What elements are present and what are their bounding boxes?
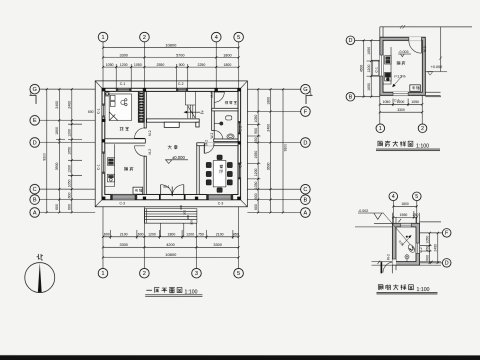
kitchen counter xyxy=(105,144,115,186)
svg-text:1: 1 xyxy=(101,35,104,41)
svg-text:D: D xyxy=(445,261,449,267)
svg-text:600: 600 xyxy=(104,232,110,236)
door bottom-left (opens out) xyxy=(381,259,396,273)
section mark 1 right xyxy=(306,91,313,105)
svg-text:1200: 1200 xyxy=(68,165,72,173)
stair closet notch xyxy=(164,122,179,127)
window C-1 left wall xyxy=(373,55,383,76)
餐厅 dining (vertical) xyxy=(220,165,223,168)
svg-text:M-2: M-2 xyxy=(148,149,152,155)
extra stems for sub ticks xyxy=(116,64,188,88)
level mark ±0.000 in hall xyxy=(166,155,189,164)
svg-text:1800: 1800 xyxy=(224,63,232,67)
svg-text:2400: 2400 xyxy=(434,244,438,252)
ticks col mid xyxy=(58,88,60,214)
svg-text:3900: 3900 xyxy=(55,162,59,170)
svg-text:3300: 3300 xyxy=(213,243,221,247)
svg-text:F: F xyxy=(304,109,308,115)
stairs xyxy=(185,91,195,118)
svg-text:1050: 1050 xyxy=(254,181,258,189)
svg-text:4500: 4500 xyxy=(360,65,364,73)
svg-text:10800: 10800 xyxy=(165,252,177,257)
svg-text:M-2: M-2 xyxy=(423,46,427,52)
porch steps xyxy=(145,209,197,224)
ticks col outer (9300) xyxy=(46,88,48,214)
svg-text:1200: 1200 xyxy=(367,65,371,73)
right vertical line with level xyxy=(440,27,442,72)
svg-text:C-2: C-2 xyxy=(419,247,423,252)
bottom line extensions xyxy=(371,222,441,265)
corner diagonals xyxy=(95,81,247,207)
svg-text:1200: 1200 xyxy=(120,63,128,67)
卧室 bedroom xyxy=(120,127,124,130)
window C-3 bottom wall left (kitchen) xyxy=(110,195,136,200)
bathroom door (left wall, opening y130.5-138.9) xyxy=(214,130,222,138)
grid row stems xyxy=(39,89,95,212)
chairs xyxy=(206,162,211,167)
door opening top right xyxy=(409,37,422,53)
svg-text:5: 5 xyxy=(415,194,418,200)
svg-text:5: 5 xyxy=(237,271,240,277)
svg-text:C: C xyxy=(33,187,37,193)
svg-text:C-2: C-2 xyxy=(178,82,184,86)
labels xyxy=(397,62,401,65)
svg-text:2: 2 xyxy=(143,271,146,277)
svg-text:M-2: M-2 xyxy=(205,140,209,146)
svg-text:2: 2 xyxy=(143,35,146,41)
svg-text:300: 300 xyxy=(182,210,186,215)
svg-text:1: 1 xyxy=(101,271,104,277)
window C-2 top wall xyxy=(176,89,187,92)
ticks outer col xyxy=(282,88,284,214)
bed (bedroom) xyxy=(109,94,131,121)
interior walls xyxy=(105,91,238,194)
svg-text:1200: 1200 xyxy=(186,232,194,236)
svg-text:600: 600 xyxy=(254,204,258,210)
svg-text:C-2: C-2 xyxy=(239,126,243,132)
svg-text:C-3: C-3 xyxy=(218,202,224,206)
dim lines xyxy=(103,48,239,67)
svg-text:2400: 2400 xyxy=(55,101,59,109)
room walls xyxy=(392,223,419,265)
svg-text:300: 300 xyxy=(186,215,190,220)
svg-text:1800: 1800 xyxy=(55,127,59,135)
M-2 tag xyxy=(423,46,427,52)
left extension of top wall xyxy=(355,223,392,227)
svg-text:M-2: M-2 xyxy=(210,92,214,98)
svg-text:C-3: C-3 xyxy=(119,202,125,206)
room walls xyxy=(380,37,426,95)
svg-text:-0.002: -0.002 xyxy=(358,209,368,213)
svg-text:1050: 1050 xyxy=(134,63,142,67)
svg-text:450: 450 xyxy=(425,246,429,252)
svg-text:3: 3 xyxy=(195,271,198,277)
window/door tags on plan xyxy=(96,82,242,205)
break marks xyxy=(377,219,432,264)
svg-text:M-1: M-1 xyxy=(163,185,169,189)
svg-text:2100: 2100 xyxy=(120,232,128,236)
svg-text:300: 300 xyxy=(189,220,193,225)
storage door xyxy=(214,92,224,102)
wall extension up + break line top xyxy=(380,27,383,37)
window C-1 right wall (dining) xyxy=(238,163,241,179)
structural columns (black) at grid intersections xyxy=(102,88,241,200)
svg-text:600: 600 xyxy=(55,204,59,210)
svg-text:10800: 10800 xyxy=(165,42,177,47)
svg-text:1050: 1050 xyxy=(383,100,391,104)
bottom wall extension right xyxy=(425,92,440,95)
wall between hall and dining (x196.8-199.2) xyxy=(197,144,199,195)
svg-text:900: 900 xyxy=(179,63,185,67)
svg-text:B: B xyxy=(349,95,353,101)
svg-text:C-1: C-1 xyxy=(97,108,101,114)
svg-text:450: 450 xyxy=(254,137,258,143)
wall outer face xyxy=(102,88,241,200)
svg-text:1050: 1050 xyxy=(68,179,72,187)
svg-text:E: E xyxy=(33,118,37,124)
svg-text:4200: 4200 xyxy=(166,243,174,247)
dining table xyxy=(213,161,226,187)
svg-text:1800: 1800 xyxy=(223,53,231,57)
ticks row1 xyxy=(102,47,240,49)
svg-text:+0.000: +0.000 xyxy=(431,65,443,69)
上 up at stairs xyxy=(200,110,204,113)
svg-text:2250: 2250 xyxy=(198,63,206,67)
grid circles top xyxy=(98,32,243,42)
ticks row2 xyxy=(102,56,240,58)
title xyxy=(378,141,383,146)
main plan title xyxy=(145,288,202,297)
flue shaft (hatched) right of bedroom xyxy=(138,91,144,122)
冰箱 fridge text xyxy=(135,189,138,192)
grid stems xyxy=(103,42,239,89)
section mark 1 top-left xyxy=(30,90,37,104)
svg-text:900: 900 xyxy=(254,128,258,134)
svg-text:750: 750 xyxy=(198,232,204,236)
svg-text:1200: 1200 xyxy=(148,232,156,236)
svg-text:A: A xyxy=(304,210,308,216)
svg-text:1200: 1200 xyxy=(397,100,405,104)
svg-text:1: 1 xyxy=(379,126,382,132)
svg-text:1800: 1800 xyxy=(401,202,409,206)
svg-text:1200: 1200 xyxy=(68,129,72,137)
window C-2 right wall xyxy=(416,243,423,253)
window C-2 right wall (bath) xyxy=(238,121,241,134)
svg-text:900: 900 xyxy=(425,255,429,261)
dim vertical lines xyxy=(47,89,72,212)
window C-1 left wall (kitchen) xyxy=(102,152,105,174)
wall inner face xyxy=(105,91,238,194)
svg-text:C-1: C-1 xyxy=(375,67,379,72)
svg-text:1800: 1800 xyxy=(266,97,270,105)
svg-text:2400: 2400 xyxy=(266,124,270,132)
kitchen door M-2 (leaf on divider bottom, arc down-left) xyxy=(135,146,145,156)
svg-text:5: 5 xyxy=(237,35,240,41)
svg-text:1:100: 1:100 xyxy=(416,287,429,293)
doors xyxy=(134,92,224,200)
window C-1 bottom wall xyxy=(393,92,408,95)
svg-text:C-1: C-1 xyxy=(239,162,243,168)
window top wall xyxy=(400,224,411,227)
hall top: low wall band from x146.6 to 198.9 xyxy=(147,119,200,122)
slope arrow xyxy=(393,77,402,87)
counter + appliances xyxy=(383,47,391,84)
svg-text:W-2: W-2 xyxy=(386,254,390,260)
svg-text:600: 600 xyxy=(68,204,72,210)
ticks mid col xyxy=(269,88,271,214)
window C-3 bottom wall right (dining) xyxy=(206,195,232,200)
shower head circle xyxy=(220,122,223,125)
svg-text:3300: 3300 xyxy=(120,53,128,57)
step depth labels 300 rotated xyxy=(179,205,194,225)
toilet xyxy=(227,134,234,139)
svg-text:1050: 1050 xyxy=(106,63,114,67)
window C-1 left wall (bedroom) xyxy=(102,104,105,117)
svg-text:1050: 1050 xyxy=(425,236,429,244)
svg-text:M-2: M-2 xyxy=(148,130,152,136)
svg-text:1800: 1800 xyxy=(167,232,175,236)
svg-text:1050: 1050 xyxy=(254,115,258,123)
svg-text:C-1: C-1 xyxy=(97,164,101,170)
svg-text:1650: 1650 xyxy=(68,147,72,155)
main entrance M-1 double door xyxy=(161,185,184,197)
svg-text:450: 450 xyxy=(233,232,239,236)
dining door M-2 (top wall, opening x204.3-213.9) xyxy=(205,143,214,146)
svg-text:3600: 3600 xyxy=(266,162,270,170)
大堂 hall xyxy=(168,145,172,149)
storage bottom wall xyxy=(212,108,238,111)
bathroom sink xyxy=(226,116,232,120)
svg-text:600: 600 xyxy=(88,110,94,114)
top dims xyxy=(392,201,418,224)
furniture xyxy=(105,91,234,194)
wall right of flue: vertical band x144.4-146.6 with two door openings xyxy=(144,91,146,128)
储备室 storage xyxy=(225,101,228,104)
svg-text:B: B xyxy=(33,197,37,203)
svg-text:1550: 1550 xyxy=(400,213,408,217)
fridge kitchen xyxy=(133,187,143,194)
svg-text:2550: 2550 xyxy=(157,63,165,67)
wall stubs up with breaks xyxy=(392,213,419,224)
svg-text:-0.003: -0.003 xyxy=(398,50,408,54)
squat pan xyxy=(407,244,416,254)
svg-text:B: B xyxy=(304,197,308,203)
svg-text:A: A xyxy=(33,210,37,216)
svg-text:W-2: W-2 xyxy=(210,132,214,138)
slope diagonal + label xyxy=(383,213,411,246)
right dims F / D xyxy=(420,232,443,264)
bedroom/kitchen divider wall xyxy=(105,139,146,143)
sub stems xyxy=(56,124,82,176)
svg-text:2400: 2400 xyxy=(68,101,72,109)
bottom dims xyxy=(379,95,424,124)
balustrade drop at right end xyxy=(196,122,199,127)
bedroom door (leaf on divider top, arc up-left) xyxy=(135,128,145,138)
svg-text:9300: 9300 xyxy=(43,153,47,161)
svg-text:C-1: C-1 xyxy=(120,82,126,86)
fridge xyxy=(410,85,421,91)
svg-text:D: D xyxy=(33,140,37,146)
ticks row3 xyxy=(102,66,240,68)
svg-text:3300: 3300 xyxy=(119,243,127,247)
svg-text:300: 300 xyxy=(179,205,183,210)
svg-text:1:100: 1:100 xyxy=(416,143,429,149)
厨房 kitchen xyxy=(124,167,128,170)
svg-text:1650: 1650 xyxy=(254,151,258,159)
room labels (drawn hanzi glyphs) xyxy=(120,101,237,192)
svg-text:1650: 1650 xyxy=(367,47,371,55)
svg-text:D: D xyxy=(303,140,307,146)
svg-text:G: G xyxy=(303,87,307,93)
ticks inner col xyxy=(257,88,259,214)
svg-text:1200: 1200 xyxy=(254,168,258,176)
eave outline xyxy=(95,81,247,207)
svg-text:1:100: 1:100 xyxy=(184,289,197,295)
ticks col inner xyxy=(71,88,73,214)
stairs/storage separator vertical x211.7-214.2 xyxy=(212,91,215,130)
svg-text:600: 600 xyxy=(138,232,144,236)
svg-text:5700: 5700 xyxy=(176,53,184,57)
svg-text:600: 600 xyxy=(68,192,72,198)
svg-text:C: C xyxy=(303,187,307,193)
svg-text:2100: 2100 xyxy=(216,232,224,236)
windows in exterior walls: white band + center line + end blocks xyxy=(102,89,241,200)
svg-text:2: 2 xyxy=(421,126,424,132)
svg-text:±0.000: ±0.000 xyxy=(172,155,185,160)
svg-text:D: D xyxy=(348,38,352,44)
title xyxy=(378,285,383,290)
window C-1 top wall xyxy=(116,89,131,92)
svg-text:600: 600 xyxy=(254,193,258,199)
svg-text:G: G xyxy=(33,87,37,93)
svg-text:3300: 3300 xyxy=(397,108,405,112)
bottom black bar xyxy=(0,355,480,360)
svg-text:250: 250 xyxy=(413,213,419,217)
svg-text:9300: 9300 xyxy=(284,144,288,152)
svg-text:1050: 1050 xyxy=(411,100,419,104)
svg-text:1650: 1650 xyxy=(367,83,371,91)
bath bottom / dining top thick band xyxy=(214,139,238,142)
grid D and B xyxy=(355,39,441,98)
bedside table xyxy=(105,92,109,96)
svg-text:4: 4 xyxy=(392,194,395,200)
